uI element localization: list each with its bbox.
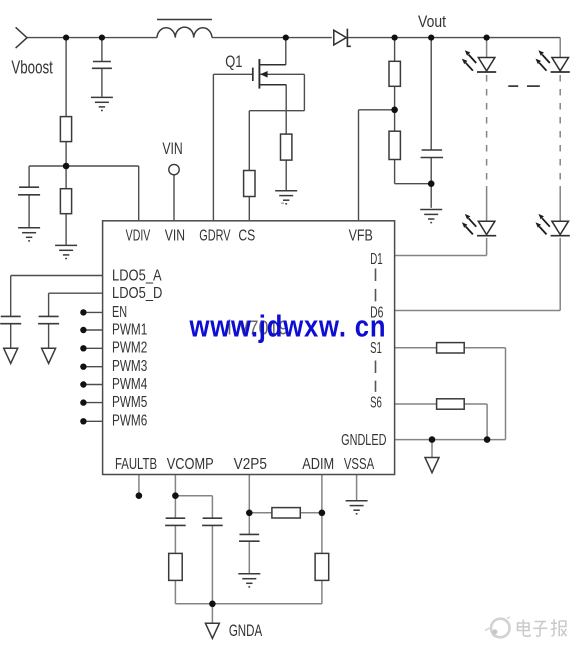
svg-text:D1: D1 bbox=[370, 250, 382, 268]
svg-text:GNDA: GNDA bbox=[229, 622, 263, 641]
svg-text:VSSA: VSSA bbox=[344, 454, 375, 472]
svg-text:PWM2: PWM2 bbox=[112, 338, 147, 356]
svg-text:VIN: VIN bbox=[165, 227, 185, 245]
svg-text:www.jdwxw. cn: www.jdwxw. cn bbox=[189, 309, 387, 344]
svg-text:EN: EN bbox=[112, 303, 127, 321]
svg-text:VFB: VFB bbox=[349, 227, 373, 245]
svg-text:LDO5_A: LDO5_A bbox=[112, 267, 162, 285]
svg-text:S6: S6 bbox=[370, 393, 382, 411]
svg-text:V2P5: V2P5 bbox=[234, 456, 267, 473]
svg-text:Q1: Q1 bbox=[225, 53, 242, 72]
svg-text:GDRV: GDRV bbox=[199, 226, 231, 244]
svg-text:Vout: Vout bbox=[418, 13, 446, 32]
svg-text:VDIV: VDIV bbox=[126, 226, 151, 244]
svg-text:PWM3: PWM3 bbox=[112, 356, 147, 374]
svg-text:FAULTB: FAULTB bbox=[115, 454, 157, 472]
svg-text:PWM6: PWM6 bbox=[112, 411, 147, 429]
svg-text:PWM5: PWM5 bbox=[112, 392, 147, 410]
svg-text:GNDLED: GNDLED bbox=[341, 431, 386, 449]
svg-text:Vboost: Vboost bbox=[11, 58, 53, 79]
svg-text:VIN: VIN bbox=[162, 140, 182, 158]
svg-text:PWM4: PWM4 bbox=[112, 374, 147, 392]
svg-text:VCOMP: VCOMP bbox=[167, 456, 214, 474]
svg-text:CS: CS bbox=[238, 227, 255, 245]
svg-text:ADIM: ADIM bbox=[302, 456, 334, 474]
svg-text:PWM1: PWM1 bbox=[112, 320, 147, 338]
svg-text:LDO5_D: LDO5_D bbox=[112, 285, 162, 303]
